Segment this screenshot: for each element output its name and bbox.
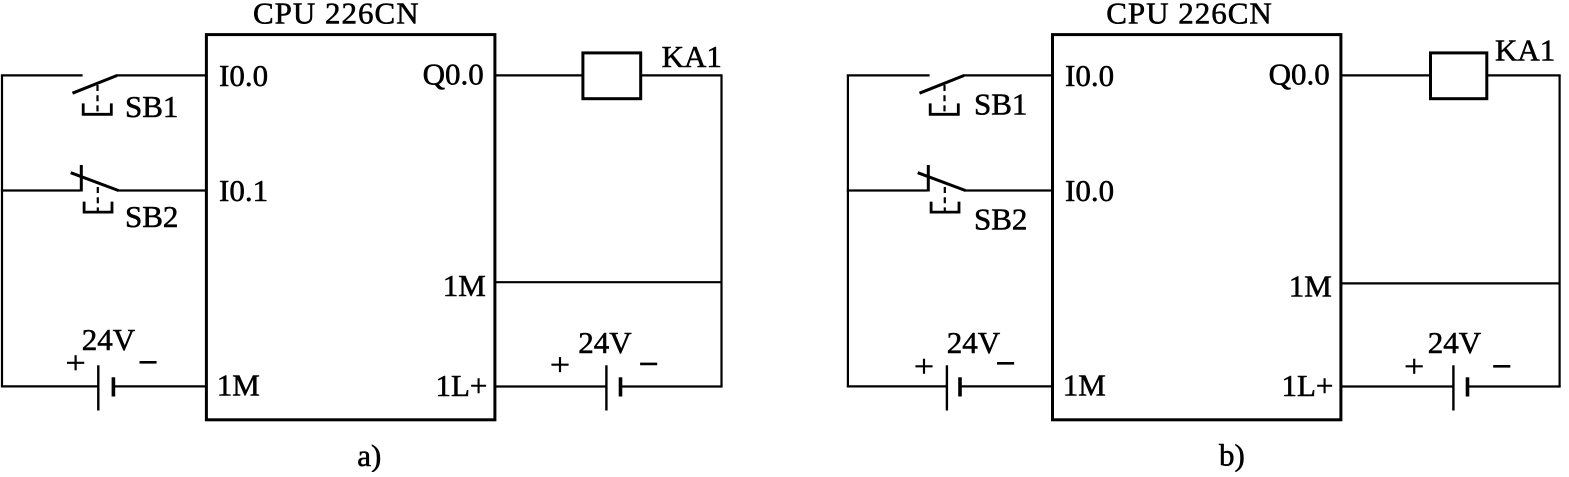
SB1 actuator dashed link (b) — [943, 85, 945, 114]
svg-text:1L+: 1L+ — [1282, 368, 1334, 403]
wire battery to right rail (a right) — [621, 385, 723, 387]
svg-text:I0.0: I0.0 — [1065, 58, 1114, 93]
wire battery to right rail (b right) — [1468, 385, 1561, 387]
SB2 fixed contact bar (a) — [80, 165, 83, 192]
wire Q0.0 to relay coil (a) — [495, 74, 583, 76]
svg-text:Q0.0: Q0.0 — [1269, 57, 1330, 92]
SB2 actuator dashed link (a) — [97, 187, 99, 212]
plus sign (a right) — [551, 357, 568, 372]
svg-text:CPU 226CN: CPU 226CN — [253, 0, 420, 31]
svg-text:1M: 1M — [443, 268, 486, 303]
wire rail to battery + plate (b left) — [847, 385, 947, 387]
wire battery to pin 1M (a left) — [113, 385, 206, 387]
battery GB2 24V negative plate (a right) — [619, 377, 623, 396]
svg-text:24V: 24V — [578, 325, 632, 360]
svg-text:KA1: KA1 — [662, 39, 722, 74]
minus sign (b left) — [997, 362, 1014, 365]
pushbutton SB2 NC contact blade (a) — [71, 173, 119, 191]
minus sign (a left) — [140, 361, 157, 364]
svg-text:SB2: SB2 — [125, 199, 178, 234]
SB2 fixed contact bar (b) — [927, 165, 930, 192]
wire rail to SB2 contact (b) — [847, 189, 927, 191]
svg-text:24V: 24V — [1428, 325, 1482, 360]
svg-text:I0.0: I0.0 — [1065, 173, 1114, 208]
relay coil KA1 (a) — [583, 53, 641, 99]
svg-text:CPU 226CN: CPU 226CN — [1106, 0, 1273, 31]
svg-text:1M: 1M — [217, 367, 260, 402]
battery GB4 24V negative plate (b right) — [1466, 377, 1470, 396]
right return rail (b) — [1558, 75, 1560, 386]
svg-text:24V: 24V — [947, 325, 1001, 360]
wire SB2 to pin I0.0 row2 (b) — [964, 189, 1052, 191]
PLC block U1 CPU 226CN (a) — [206, 35, 495, 420]
svg-text:I0.0: I0.0 — [219, 58, 268, 93]
wire SB2 to pin I0.1 (a) — [117, 189, 206, 191]
svg-text:a): a) — [357, 438, 381, 472]
wire relay coil to right rail (a) — [641, 74, 723, 76]
SB1 actuator dashed link (a) — [96, 85, 98, 114]
plus sign (b right) — [1406, 359, 1423, 374]
wire rail to SB2 contact (a) — [1, 189, 80, 191]
left supply rail (b) — [847, 75, 849, 386]
svg-text:1M: 1M — [1289, 269, 1332, 304]
svg-text:1L+: 1L+ — [436, 368, 488, 403]
wire SB1 to pin I0.0 (b) — [963, 74, 1053, 76]
plus sign (a left) — [67, 355, 84, 370]
svg-text:Q0.0: Q0.0 — [423, 57, 484, 92]
pushbutton SB1 NO contact blade (a) — [73, 76, 118, 94]
battery GB1 24V negative plate (a left) — [112, 377, 116, 396]
minus sign (b right) — [1493, 365, 1510, 368]
battery GB4 24V positive plate (b right) — [1452, 365, 1454, 410]
svg-text:SB2: SB2 — [974, 202, 1027, 237]
pushbutton SB2 NC contact blade (b) — [918, 173, 966, 191]
wire rail to SB1 left contact (a) — [1, 74, 83, 76]
svg-text:b): b) — [1219, 438, 1245, 472]
svg-text:1M: 1M — [1063, 367, 1106, 402]
wire pin 1M right to rail (a) — [495, 281, 722, 283]
SB2 pushbutton head (b) — [931, 202, 959, 213]
SB2 pushbutton head (a) — [84, 202, 112, 213]
wire pin 1L+ to battery (b right) — [1341, 385, 1454, 387]
battery GB2 24V positive plate (a right) — [605, 365, 607, 410]
wire rail to battery + plate (a left) — [1, 385, 98, 387]
wire pin 1M right to rail (b) — [1341, 282, 1560, 284]
relay coil KA1 (b) — [1431, 53, 1487, 99]
SB1 pushbutton head (b) — [930, 103, 958, 114]
svg-text:24V: 24V — [82, 322, 136, 357]
plus sign (b left) — [915, 359, 932, 374]
svg-text:KA1: KA1 — [1495, 32, 1555, 67]
PLC block U2 CPU 226CN (b) — [1053, 35, 1341, 420]
wire relay coil to right rail (b) — [1487, 74, 1561, 76]
SB1 pushbutton head (a) — [83, 103, 111, 114]
minus sign (a right) — [640, 363, 657, 366]
wire SB1 to pin I0.0 (a) — [116, 74, 206, 76]
SB2 actuator dashed link (b) — [944, 187, 946, 212]
wire battery to pin 1M (b left) — [960, 385, 1053, 387]
battery GB3 24V negative plate (b left) — [958, 377, 962, 396]
wire rail to SB1 left contact (b) — [847, 74, 930, 76]
battery GB3 24V positive plate (b left) — [946, 365, 948, 410]
svg-text:SB1: SB1 — [125, 89, 178, 124]
right return rail (a) — [720, 75, 722, 386]
pushbutton SB1 NO contact blade (b) — [920, 76, 965, 94]
wire Q0.0 to relay coil (b) — [1341, 74, 1431, 76]
svg-text:SB1: SB1 — [974, 86, 1027, 121]
svg-text:I0.1: I0.1 — [219, 173, 268, 208]
battery GB1 24V positive plate (a left) — [97, 365, 99, 410]
left supply rail (a) — [1, 75, 3, 386]
wire pin 1L+ to battery (a right) — [495, 385, 607, 387]
